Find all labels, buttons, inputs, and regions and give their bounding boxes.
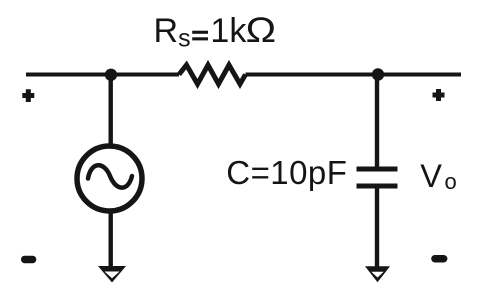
equals sign of Rs label xyxy=(192,31,208,34)
resistor Rs zigzag xyxy=(179,65,246,84)
plus sign left xyxy=(22,89,34,102)
capacitor C bottom plate xyxy=(357,184,398,189)
wire top-right horizontal xyxy=(246,73,462,77)
node junction dot right xyxy=(372,68,384,80)
node junction dot left xyxy=(105,69,117,81)
wire right vertical to capacitor xyxy=(375,75,379,169)
minus sign left xyxy=(21,256,36,264)
svg-text:Ω: Ω xyxy=(246,12,277,51)
wire source to ground xyxy=(108,211,112,267)
svg-text:C=10pF: C=10pF xyxy=(226,154,347,191)
ground right xyxy=(365,266,390,282)
ground left xyxy=(98,266,126,283)
wire capacitor to ground xyxy=(375,186,379,267)
source circle xyxy=(77,146,142,211)
wire top-left horizontal xyxy=(26,73,179,77)
minus sign right xyxy=(431,255,447,263)
plus sign right xyxy=(433,89,445,101)
svg-text:Vo: Vo xyxy=(420,158,457,194)
capacitor C top plate xyxy=(357,167,398,172)
source sine wave xyxy=(88,165,132,187)
wire left vertical to source xyxy=(108,75,112,145)
